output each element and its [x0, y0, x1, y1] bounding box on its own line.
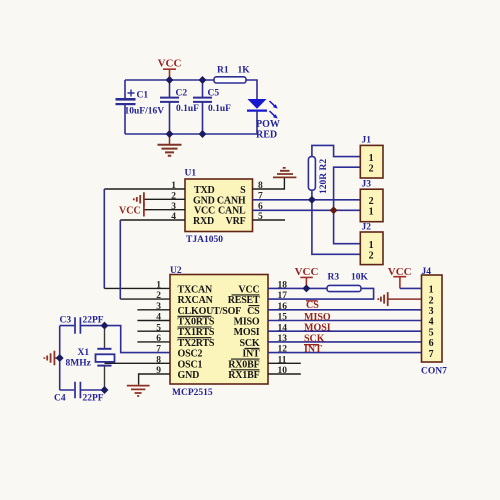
junction VCC at U2 pin18 — [302, 284, 310, 292]
U2 pin 4 number — [156, 313, 161, 323]
svg-text:TX0RTS: TX0RTS — [178, 317, 215, 328]
U2 pin 14 number — [278, 323, 288, 333]
svg-text:10K: 10K — [351, 273, 369, 283]
junction top bus at C5 — [199, 76, 207, 84]
svg-text:C3: C3 — [60, 316, 72, 326]
wire SCK U2 pin13 to J4 pin6 — [268, 341, 422, 343]
svg-text:VRF: VRF — [226, 216, 246, 227]
ground left of crystal rotated — [44, 351, 59, 365]
capacitor C4 22PF — [54, 382, 104, 404]
wire U2 pin6 stub — [137, 341, 170, 343]
U2 pin 8 number — [156, 355, 161, 365]
U2 pin 10 number — [278, 366, 288, 376]
svg-text:R3: R3 — [328, 273, 340, 283]
resistor R3 10K — [327, 273, 369, 292]
wire U2 pin5 stub — [137, 330, 170, 332]
U2 pin 3 number — [156, 302, 161, 312]
wire U2 pin9 to ground — [139, 374, 170, 385]
svg-text:2: 2 — [156, 291, 161, 301]
U2 pin 12 number — [278, 345, 288, 355]
svg-text:U2: U2 — [170, 266, 182, 276]
svg-text:RXCAN: RXCAN — [178, 295, 214, 306]
wire TXD U1 pin1 to U2 pin1 — [104, 189, 185, 288]
wire RXD U1 pin4 to U2 pin2 — [120, 220, 185, 299]
power VCC at U1 pin3 — [119, 203, 144, 217]
junction CANL at J1 branch — [330, 206, 338, 214]
wire MOSI U2 pin14 to J4 pin5 — [268, 330, 422, 332]
svg-text:7: 7 — [429, 349, 434, 360]
net label CS — [306, 300, 319, 311]
wire C3 to OSC2 staircase — [81, 326, 170, 353]
capacitor C2 — [160, 80, 199, 134]
svg-text:VCC: VCC — [238, 284, 259, 295]
wire J1 pin2 down to CANL and J2 pin1 — [334, 167, 361, 244]
svg-text:2: 2 — [369, 196, 374, 207]
wire crystal left rail — [60, 326, 74, 390]
LED POW RED — [247, 99, 280, 140]
connector J4 CON7 — [421, 267, 447, 377]
U2 pin 11 number — [278, 355, 287, 365]
svg-text:RXD: RXD — [193, 216, 214, 227]
junction C4 row — [101, 386, 109, 394]
ground at U2 pin9 — [127, 386, 150, 396]
wire U1 pin2 to ground — [144, 198, 186, 200]
svg-text:CON7: CON7 — [421, 367, 447, 377]
svg-text:RESET: RESET — [228, 295, 260, 306]
ground power rail — [158, 134, 182, 156]
svg-text:1K: 1K — [238, 66, 251, 76]
wire top VCC bus — [125, 79, 214, 81]
wire left branch to C1 — [124, 80, 126, 134]
wire CS U2 pin16 to J4 pin3 — [268, 309, 422, 311]
svg-text:1: 1 — [369, 207, 374, 218]
wire CANL U1 pin6 to J3 pin1 — [253, 209, 361, 211]
capacitor C1 — [116, 90, 165, 117]
svg-text:1: 1 — [369, 240, 374, 251]
svg-text:5: 5 — [429, 327, 434, 338]
wire VCC to J4 pin1 — [400, 287, 422, 289]
svg-text:OSC1: OSC1 — [178, 359, 203, 370]
svg-text:120R R2: 120R R2 — [319, 159, 329, 194]
wire U1 pin8 to ground — [253, 178, 285, 189]
wire U1 pin5 stub — [253, 219, 286, 221]
U2 pin 9 number — [156, 366, 161, 376]
net label SCK — [304, 334, 325, 345]
junction bottom bus at C2 — [166, 130, 174, 138]
svg-text:C2: C2 — [176, 89, 188, 99]
capacitor C3 22PF — [60, 316, 104, 334]
net label MISO — [304, 312, 331, 323]
junction CANH at R2 — [308, 196, 316, 204]
svg-text:2: 2 — [369, 251, 374, 262]
svg-text:J2: J2 — [362, 223, 372, 233]
wire CANH U1 pin7 to J3 pin2 — [253, 199, 361, 201]
connector J3 — [360, 180, 383, 222]
U1 pin 8 number — [258, 181, 263, 191]
power VCC at J4 — [388, 266, 412, 289]
net label INT — [304, 344, 322, 355]
U2 pin 7 number — [156, 345, 161, 355]
svg-text:TX1RTS: TX1RTS — [178, 327, 215, 338]
svg-text:RX0BF: RX0BF — [228, 359, 259, 370]
junction top bus at C2 — [166, 76, 174, 84]
IC U2 MCP2515 body — [170, 266, 268, 398]
U2 pin 5 number — [156, 323, 161, 333]
wire U2 pin3 stub — [137, 309, 170, 311]
svg-text:22PF: 22PF — [83, 316, 104, 326]
wire U2 pin18 to R3 with VCC — [268, 287, 327, 289]
power net VCC — [158, 58, 182, 81]
svg-text:VCC: VCC — [158, 58, 182, 70]
svg-text:INT: INT — [304, 344, 322, 355]
wire R2 top to J1 pin1 — [312, 145, 360, 156]
wire MISO U2 pin15 to J4 pin4 — [268, 320, 422, 322]
svg-text:CLKOUT/SOF: CLKOUT/SOF — [178, 306, 242, 317]
svg-text:MOSI: MOSI — [304, 323, 331, 334]
svg-text:MCP2515: MCP2515 — [172, 388, 213, 398]
ground at U1 pin8 inverted — [273, 168, 296, 178]
svg-text:22PF: 22PF — [83, 394, 104, 404]
svg-text:C4: C4 — [54, 394, 66, 404]
svg-text:CS: CS — [247, 306, 260, 317]
svg-text:J1: J1 — [362, 136, 372, 146]
svg-text:8MHz: 8MHz — [66, 359, 92, 369]
svg-text:10uF/16V: 10uF/16V — [125, 107, 165, 117]
svg-text:MOSI: MOSI — [234, 327, 260, 338]
junction bottom bus at C5 — [199, 130, 207, 138]
svg-text:VCC: VCC — [295, 266, 319, 278]
svg-text:C1: C1 — [137, 91, 149, 101]
junction C3 row — [101, 322, 109, 330]
svg-text:GND: GND — [178, 370, 200, 381]
ground at U1 pin2 rotated — [134, 192, 144, 206]
svg-text:SCK: SCK — [240, 338, 260, 349]
svg-text:INT: INT — [242, 349, 260, 360]
svg-text:6: 6 — [429, 338, 434, 349]
svg-text:J3: J3 — [362, 180, 372, 190]
svg-text:RX1BF: RX1BF — [228, 370, 259, 381]
svg-text:U1: U1 — [185, 169, 197, 179]
U1 pin 1 number — [171, 181, 176, 191]
U2 pin 2 number — [156, 291, 161, 301]
U2 pin 16 number — [278, 302, 288, 312]
power VCC at U2 pin18 — [295, 266, 319, 289]
U2 pin 6 number — [156, 334, 161, 344]
wire INT U2 pin12 to J4 pin7 — [268, 352, 422, 354]
svg-text:2: 2 — [429, 295, 434, 306]
wire C4 row to crystal — [81, 389, 105, 391]
junction left rail at ground — [56, 354, 64, 362]
U2 pin 18 number — [278, 281, 288, 291]
U2 pin 15 number — [278, 313, 288, 323]
connector J1 — [360, 136, 383, 179]
svg-text:OSC2: OSC2 — [178, 349, 203, 360]
U2 pin 1 number — [156, 281, 161, 291]
svg-text:1: 1 — [156, 281, 161, 291]
wire U2 pin10 stub — [268, 373, 301, 375]
svg-text:2: 2 — [369, 164, 374, 175]
wire R3 to U2 pin17 RESET — [268, 288, 374, 299]
svg-text:MISO: MISO — [234, 317, 260, 328]
svg-text:GND: GND — [193, 195, 215, 206]
svg-text:1: 1 — [429, 285, 434, 296]
svg-text:1: 1 — [369, 153, 374, 164]
svg-text:VCC: VCC — [119, 206, 141, 217]
svg-text:TJA1050: TJA1050 — [186, 235, 223, 245]
svg-text:C5: C5 — [208, 89, 220, 99]
svg-text:3: 3 — [429, 306, 434, 317]
op-amp U1 TJA1050 body — [185, 169, 253, 246]
U1 pin 2 number — [171, 192, 176, 202]
svg-text:R1: R1 — [217, 66, 229, 76]
svg-text:CS: CS — [306, 300, 319, 311]
U1 pin 3 number — [171, 202, 176, 212]
resistor R2 120R — [308, 157, 329, 194]
U2 pin 17 number — [278, 291, 288, 301]
svg-text:SCK: SCK — [304, 334, 325, 345]
svg-text:0.1uF: 0.1uF — [208, 104, 231, 114]
wire U2 pin4 stub — [137, 320, 170, 322]
wire R2 bottom to CANH and J2 pin2 — [312, 190, 360, 254]
svg-text:CANH: CANH — [217, 195, 246, 206]
crystal X1 8MHz — [66, 326, 115, 390]
resistor R1 — [214, 66, 250, 84]
net label MOSI — [304, 323, 331, 334]
svg-text:4: 4 — [429, 317, 434, 328]
wire R1 to LED — [246, 80, 257, 99]
wire U2 pin11 stub — [268, 362, 301, 364]
U2 pin 13 number — [278, 334, 288, 344]
wire U1 pin3 to VCC — [144, 209, 185, 211]
svg-text:TXCAN: TXCAN — [178, 284, 214, 295]
svg-text:TX2RTS: TX2RTS — [178, 338, 215, 349]
U1 pin 7 number — [258, 192, 263, 202]
U1 pin 4 number — [171, 212, 176, 222]
connector J2 — [360, 223, 383, 265]
wire OSC1 to U2 pin8 — [105, 362, 171, 364]
U1 pin 6 number — [258, 202, 263, 212]
wire bottom bus — [125, 133, 257, 135]
svg-text:0.1uF: 0.1uF — [176, 104, 199, 114]
svg-text:RED: RED — [256, 129, 277, 140]
capacitor C5 — [193, 80, 231, 134]
ground at J4 pin2 rotated — [378, 292, 421, 306]
svg-text:MISO: MISO — [304, 312, 331, 323]
U1 pin 5 number — [258, 212, 263, 222]
svg-text:X1: X1 — [78, 348, 90, 358]
